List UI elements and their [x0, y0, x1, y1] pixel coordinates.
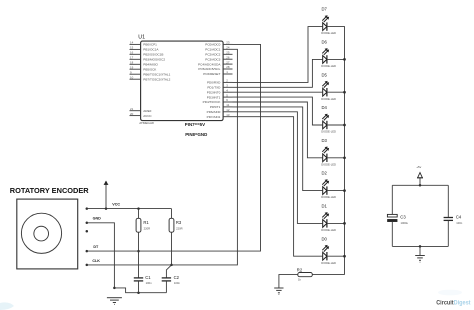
wire DT net (PC0 to encoder DT) — [87, 44, 261, 251]
wire CLK net (PC1 to encoder CLK) — [87, 49, 238, 265]
svg-text:DIODE-LED: DIODE-LED — [321, 195, 336, 199]
wire PD6 to D1 anode — [233, 112, 323, 224]
svg-text:D3: D3 — [322, 138, 328, 143]
rotary encoder body — [17, 199, 78, 269]
svg-text:220R: 220R — [176, 227, 182, 231]
svg-text:PD6/AIN0: PD6/AIN0 — [207, 110, 221, 114]
resistor R3 — [169, 209, 182, 265]
svg-text:D2: D2 — [322, 171, 328, 176]
svg-text:PIN7==5V: PIN7==5V — [185, 122, 205, 127]
svg-text:1000u: 1000u — [401, 221, 409, 225]
node SW terminal — [86, 230, 89, 233]
svg-text:D7: D7 — [322, 7, 328, 12]
svg-text:PC4/ADC4/SDA: PC4/ADC4/SDA — [198, 62, 221, 66]
svg-text:PC3/ADC3: PC3/ADC3 — [205, 57, 220, 61]
svg-text:DIODE-LED: DIODE-LED — [321, 64, 336, 68]
svg-text:DIODE-LED: DIODE-LED — [321, 162, 336, 166]
wire PD5 to D2 anode — [233, 107, 323, 191]
power +5V arrow — [416, 165, 423, 185]
svg-text:DIODE-LED: DIODE-LED — [321, 31, 336, 35]
wire R2 to ground — [279, 275, 298, 288]
ATMEGA8 value label — [139, 121, 154, 125]
pin PB5/SCK (pin 19) stub — [130, 66, 158, 72]
svg-text:PC6/RESET: PC6/RESET — [203, 72, 220, 76]
pin PB0/ICP1 (pin 14) stub — [130, 41, 158, 47]
wire PD3 to D4 anode — [233, 97, 323, 125]
pin PC1/ADC1 (pin 24) stub — [205, 46, 232, 52]
svg-text:R2: R2 — [297, 267, 303, 272]
svg-text:DIODE-LED: DIODE-LED — [321, 261, 336, 265]
svg-text:20: 20 — [130, 112, 134, 116]
svg-text:100n: 100n — [174, 281, 180, 285]
pin PB2/SS/OC1B (pin 16) stub — [130, 51, 164, 57]
svg-text:VCC: VCC — [112, 203, 120, 207]
svg-text:U1: U1 — [138, 35, 145, 41]
pin PD6/AIN0 (pin 12) stub — [207, 108, 233, 114]
LED D6 — [321, 40, 336, 69]
pin PB3/MOSI/OC2 (pin 17) stub — [130, 56, 166, 62]
svg-text:220R: 220R — [144, 227, 150, 231]
capacitor C4 — [444, 185, 463, 246]
power VCC arrow — [104, 181, 108, 209]
svg-text:GND: GND — [93, 217, 102, 221]
svg-text:PB7/TOSC2/XTAL2: PB7/TOSC2/XTAL2 — [143, 77, 170, 81]
pin AREF (pin 21) stub — [130, 107, 152, 113]
svg-text:C4: C4 — [456, 215, 462, 220]
node VCC terminal — [86, 203, 121, 210]
U1 reference label — [138, 35, 145, 41]
svg-text:DT: DT — [93, 245, 99, 249]
svg-text:13: 13 — [226, 113, 230, 117]
svg-text:21: 21 — [130, 107, 134, 111]
svg-text:CLK: CLK — [92, 259, 100, 263]
svg-text:PC5/ADC5/SCL: PC5/ADC5/SCL — [198, 67, 220, 71]
wire VCC rail — [87, 207, 172, 210]
capacitor C1 — [134, 251, 152, 293]
node DT terminal — [86, 245, 100, 252]
LED D7 — [321, 7, 336, 36]
wire bottom rail — [392, 245, 448, 255]
svg-text:24: 24 — [226, 46, 230, 50]
rotary encoder title — [10, 186, 90, 195]
pin AVCC (pin 20) stub — [130, 112, 153, 118]
svg-text:14: 14 — [130, 41, 134, 45]
svg-text:PC2/ADC2: PC2/ADC2 — [205, 53, 220, 57]
ground (R2) — [274, 288, 283, 295]
svg-text:100n: 100n — [456, 221, 462, 225]
note PIN8=GND — [185, 132, 207, 137]
node CLK terminal — [86, 259, 101, 266]
svg-text:C1: C1 — [145, 275, 151, 280]
node R3-CLK junction — [170, 264, 173, 267]
op-amp U1 microcontroller ATMEGA8 body — [141, 41, 224, 121]
wire PD2 to D5 anode — [233, 91, 323, 93]
svg-text:27: 27 — [226, 60, 230, 64]
svg-text:AREF: AREF — [143, 109, 151, 113]
wire GND to ground rail — [87, 223, 167, 294]
svg-text:28: 28 — [226, 65, 230, 69]
node R1-DT junction — [137, 250, 140, 253]
svg-text:R1: R1 — [143, 220, 149, 225]
wire PD7 to D0 anode — [233, 117, 323, 257]
LED D5 — [321, 72, 336, 101]
svg-text:D5: D5 — [322, 72, 328, 77]
ground (encoder) — [107, 298, 122, 305]
pin PB4/MISO (pin 18) stub — [130, 61, 159, 67]
svg-text:17: 17 — [130, 56, 134, 60]
svg-text:PB1/OC1A: PB1/OC1A — [143, 48, 159, 52]
capacitor C3 electrolytic — [387, 185, 408, 246]
pin PC6/RESET (pin 1) stub — [203, 70, 232, 76]
wire PD1 to D6 anode — [233, 59, 323, 87]
pin PC4/ADC4/SDA (pin 27) stub — [198, 60, 232, 66]
pin PC0/ADC0 (pin 23) stub — [205, 41, 232, 47]
svg-text:PB0/ICP1: PB0/ICP1 — [143, 43, 157, 47]
wire PD0 to D7 anode — [233, 27, 323, 83]
LED D2 — [321, 171, 336, 200]
LED D3 — [321, 138, 336, 167]
LED D4 — [321, 105, 336, 134]
svg-text:D0: D0 — [322, 236, 328, 241]
pin PD0/RXD (pin 2) stub — [207, 79, 233, 85]
svg-text:PB4/MISO: PB4/MISO — [143, 63, 158, 67]
svg-text:18: 18 — [130, 61, 134, 65]
pin PC3/ADC3 (pin 26) stub — [205, 55, 232, 61]
pin PD3/INT1 (pin 5) stub — [207, 93, 233, 99]
LED D1 — [321, 204, 336, 233]
pin PB1/OC1A (pin 15) stub — [130, 46, 160, 52]
svg-text:ATMEGA8: ATMEGA8 — [139, 121, 154, 125]
svg-text:16: 16 — [130, 51, 134, 55]
pin PD4/T0/XCK (pin 6) stub — [203, 98, 233, 104]
svg-text:DIODE-LED: DIODE-LED — [321, 130, 336, 134]
capacitor C2 — [162, 265, 181, 293]
svg-text:PD3/INT1: PD3/INT1 — [207, 95, 221, 99]
pin PD2/INT0 (pin 4) stub — [207, 88, 233, 94]
svg-text:DIODE-LED: DIODE-LED — [321, 97, 336, 101]
pin PD7/AIN1 (pin 13) stub — [207, 113, 233, 119]
watermark corner smudge — [0, 302, 14, 310]
svg-text:PD1/TXD: PD1/TXD — [207, 86, 221, 90]
pin PC2/ADC2 (pin 25) stub — [205, 51, 232, 57]
svg-text:PD0/RXD: PD0/RXD — [207, 81, 221, 85]
svg-text:PC1/ADC1: PC1/ADC1 — [205, 48, 220, 52]
svg-text:D4: D4 — [322, 105, 328, 110]
pin PB6/TOSC1/XTAL1 (pin 9) stub — [130, 70, 171, 76]
node GND terminal — [86, 217, 102, 224]
svg-text:PD5/T1: PD5/T1 — [210, 105, 221, 109]
pin PB7/TOSC2/XTAL2 (pin 10) stub — [130, 75, 171, 81]
svg-text:PD4/T0/XCK: PD4/T0/XCK — [203, 100, 222, 104]
LED D0 — [321, 236, 336, 264]
svg-text:25: 25 — [226, 51, 230, 55]
svg-text:D1: D1 — [322, 204, 328, 209]
svg-text:PIN8=GND: PIN8=GND — [185, 132, 207, 137]
svg-text:PC0/ADC0: PC0/ADC0 — [205, 43, 220, 47]
pin PD5/T1 (pin 11) stub — [210, 103, 233, 109]
svg-text:PD2/INT0: PD2/INT0 — [207, 90, 221, 94]
svg-text:11: 11 — [226, 103, 229, 107]
svg-text:PB6/TOSC1/XTAL1: PB6/TOSC1/XTAL1 — [143, 72, 170, 76]
svg-text:C3: C3 — [400, 214, 406, 219]
svg-text:+5v: +5v — [416, 165, 421, 169]
pin PC5/ADC5/SCL (pin 28) stub — [198, 65, 232, 71]
note PIN7==5V — [185, 122, 205, 127]
svg-text:D6: D6 — [322, 40, 328, 45]
svg-text:PB2/SS/OC1B: PB2/SS/OC1B — [143, 53, 163, 57]
svg-text:AVCC: AVCC — [143, 114, 152, 118]
svg-text:100n: 100n — [146, 281, 152, 285]
svg-text:26: 26 — [226, 55, 230, 59]
svg-text:19: 19 — [130, 66, 134, 70]
svg-text:10: 10 — [130, 75, 134, 79]
ground (decoupling) — [415, 256, 425, 263]
watermark CircuitDigest — [436, 290, 470, 307]
wire +5V top rail — [392, 184, 448, 187]
svg-text:C2: C2 — [174, 275, 180, 280]
svg-text:PD7/AIN1: PD7/AIN1 — [207, 115, 221, 119]
resistor R1 — [136, 209, 150, 252]
svg-text:ROTATORY ENCODER: ROTATORY ENCODER — [10, 186, 90, 195]
svg-text:PB5/SCK: PB5/SCK — [143, 68, 157, 72]
svg-text:12: 12 — [226, 108, 230, 112]
wire LED cathode bus — [327, 27, 346, 275]
svg-text:23: 23 — [226, 41, 230, 45]
pin PD1/TXD (pin 3) stub — [207, 84, 232, 90]
svg-text:DIODE-LED: DIODE-LED — [321, 228, 336, 232]
svg-text:CircuitDigest: CircuitDigest — [436, 300, 470, 306]
svg-text:PB3/MOSI/OC2: PB3/MOSI/OC2 — [143, 58, 165, 62]
wire PD4 to D3 anode — [233, 102, 323, 158]
resistor R2 — [297, 267, 345, 281]
svg-text:R3: R3 — [176, 220, 182, 225]
svg-text:15: 15 — [130, 46, 134, 50]
